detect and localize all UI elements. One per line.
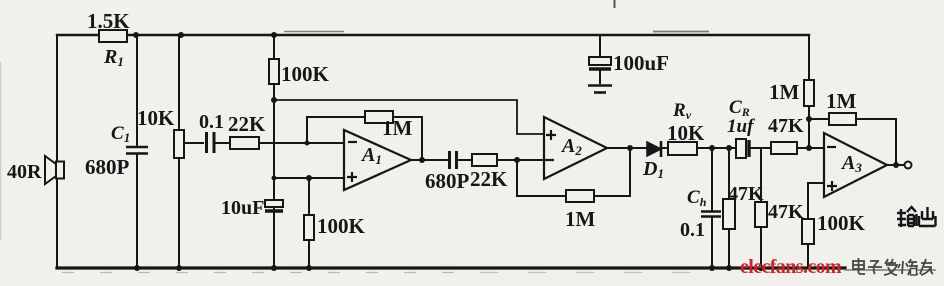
svg-text:1M: 1M	[565, 207, 596, 231]
svg-text:680P: 680P	[85, 155, 130, 179]
wire bottom ground rail	[57, 266, 845, 269]
svg-text:22K: 22K	[228, 112, 266, 136]
resistor 47K second vertical	[755, 148, 804, 268]
capacitor 10uF	[221, 197, 283, 219]
capacitor 680P coupling	[425, 151, 472, 193]
resistor 22K second	[470, 154, 544, 191]
op-amp A3	[824, 133, 887, 197]
svg-text:100K: 100K	[317, 214, 366, 238]
svg-text:100K: 100K	[281, 62, 330, 86]
svg-text:22K: 22K	[470, 167, 508, 191]
svg-text:680P: 680P	[425, 169, 470, 193]
wire A2 noninverting path	[274, 100, 544, 134]
capacitor CR 1uf	[727, 97, 771, 158]
resistor 22K input	[228, 112, 344, 149]
capacitor Ch 0.1	[680, 148, 721, 268]
wire A3 output and terminal	[886, 162, 912, 169]
ground symbol	[588, 86, 612, 93]
elecfans watermark	[740, 256, 842, 278]
resistor R1 1.5K	[87, 9, 130, 69]
speaker microphone 40R	[7, 156, 64, 184]
op-amp A1	[344, 130, 411, 190]
svg-text:10uF: 10uF	[221, 197, 264, 219]
wire A1 noninverting input	[274, 177, 344, 179]
resistor 100K bias top	[269, 35, 330, 268]
capacitor 100uF supply	[589, 35, 669, 84]
svg-text:1M: 1M	[826, 89, 857, 113]
capacitor 0.1	[199, 111, 230, 153]
resistor 1M vertical	[769, 35, 814, 148]
potentiometer 10K	[137, 35, 204, 268]
svg-text:100uF: 100uF	[613, 51, 669, 75]
wire top supply rail	[57, 34, 809, 36]
resistor 1M feedback A2	[517, 148, 630, 231]
svg-text:47K: 47K	[768, 201, 804, 223]
svg-text:10K: 10K	[137, 106, 175, 130]
svg-text:1M: 1M	[769, 80, 800, 104]
capacitor C1 680P	[85, 35, 148, 268]
resistor 1M feedback A1	[307, 111, 422, 160]
scan artifact dashes (decorative)	[0, 0, 709, 273]
wire bottom rail gray extension	[845, 269, 935, 271]
resistor Rv 10K	[661, 100, 736, 155]
svg-text:47K: 47K	[768, 115, 804, 137]
watermark 电子发烧友 drawn as strokes	[853, 258, 933, 275]
svg-text:100K: 100K	[817, 211, 866, 235]
svg-text:40R: 40R	[7, 161, 42, 183]
svg-text:elecfans.com: elecfans.com	[740, 256, 842, 278]
wire A3 noninverting	[808, 183, 824, 219]
svg-text:0.1: 0.1	[199, 111, 224, 133]
svg-text:0.1: 0.1	[680, 219, 705, 241]
svg-text:1.5K: 1.5K	[87, 9, 130, 33]
svg-text:1M: 1M	[382, 116, 413, 140]
svg-text:10K: 10K	[667, 121, 705, 145]
wire left rail	[56, 35, 58, 268]
diode D1	[642, 141, 664, 181]
resistor 100K A3	[802, 211, 866, 268]
svg-text:1uf: 1uf	[727, 116, 755, 137]
wire A1 output	[410, 159, 449, 161]
resistor 100K to ground A1	[304, 178, 366, 268]
op-amp A2	[544, 117, 607, 179]
resistor 47K first vertical	[723, 148, 764, 268]
wire A2 output	[607, 147, 647, 149]
resistor 1M feedback A3	[809, 89, 896, 165]
node output label 输出 drawn as strokes	[897, 207, 936, 227]
resistor 47K horizontal	[768, 115, 824, 154]
